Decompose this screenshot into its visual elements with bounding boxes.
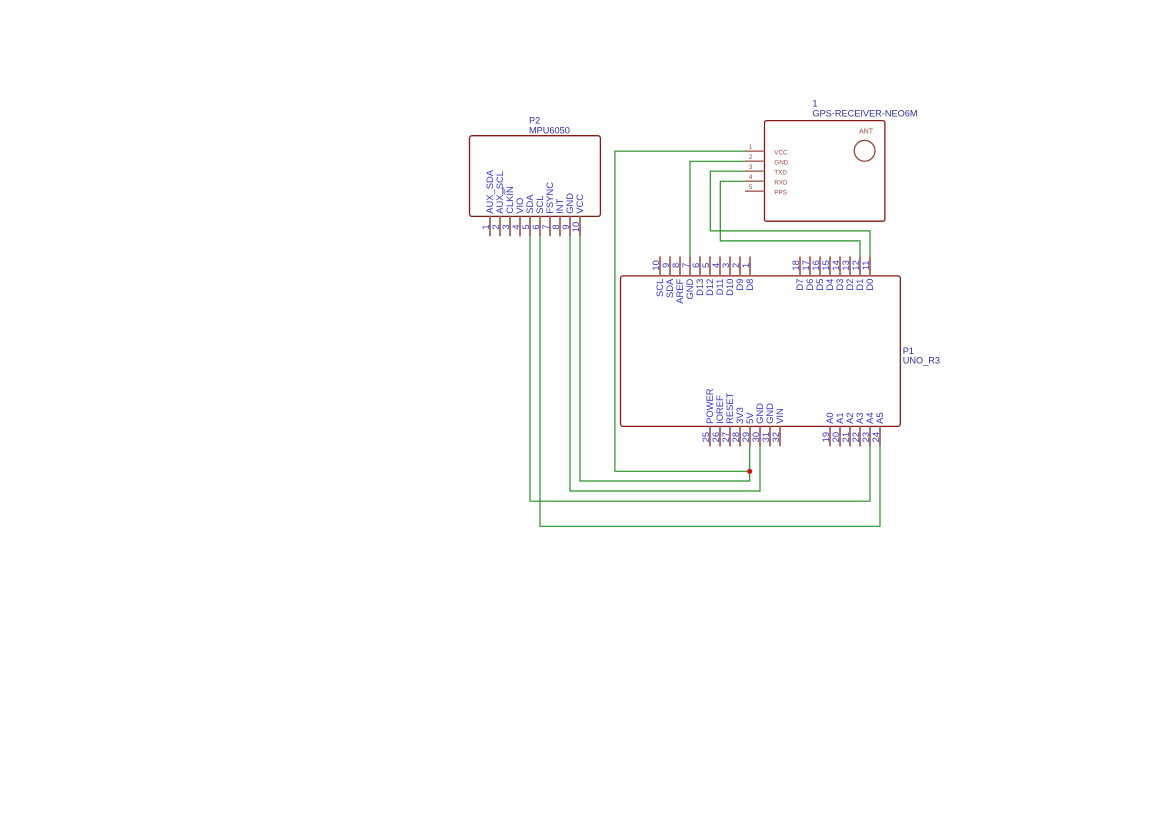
P1 bottom pin 23 (A4) stub, number and name <box>860 412 875 446</box>
P1 top pin 12 (D1) stub, number and name <box>850 256 865 290</box>
P2 pin 2 (AUX_SCL) stub, number and name <box>490 171 505 236</box>
P1 bottom pin 28 (3V3) stub, number and name <box>730 407 745 446</box>
P1 top pin 15 (D4) stub, number and name <box>820 256 835 290</box>
P2 pin 6 (SCL) stub, number and name <box>530 196 545 237</box>
P1 top pin 3 (D10) stub, number and name <box>720 256 735 296</box>
P1 top pin 16 (D5) stub, number and name <box>810 256 825 290</box>
svg-text:D0: D0 <box>864 279 875 291</box>
P1 top pin 6 (D13) stub, number and name <box>690 256 705 296</box>
wire P1 5V pin 29 to P2 VCC pin 10 <box>580 236 750 481</box>
P1 top pin 18 (D7) stub, number and name <box>790 256 805 290</box>
P1 bottom pin 26 (IOREF) stub, number and name <box>710 395 725 446</box>
wire GPS GND to P1 GND pin 7 <box>690 161 745 256</box>
P1 value label UNO_R3 <box>903 356 940 366</box>
svg-text:VCC: VCC <box>774 149 788 156</box>
svg-text:P2: P2 <box>529 116 540 126</box>
P1 bottom pin 31 (GND) stub, number and name <box>760 403 775 447</box>
P1 bottom pin 19 (A0) stub, number and name <box>820 412 835 446</box>
GPS pin 1 (VCC) stub, number and name <box>745 144 788 156</box>
P2 value label MPU6050 <box>529 126 570 136</box>
P1 bottom pin 30 (GND) stub, number and name <box>750 403 765 447</box>
P1 bottom pin 22 (A3) stub, number and name <box>850 412 865 446</box>
wire GPS VCC to 5V net junction <box>615 151 750 471</box>
svg-text:P1: P1 <box>903 346 914 356</box>
svg-text:11: 11 <box>860 261 871 271</box>
P1 top pin 4 (D11) stub, number and name <box>710 256 725 295</box>
svg-text:UNO_R3: UNO_R3 <box>903 356 940 366</box>
svg-text:GND: GND <box>774 159 788 166</box>
svg-text:D8: D8 <box>744 279 755 291</box>
svg-text:ANT: ANT <box>859 129 874 136</box>
P1 top pin 2 (D9) stub, number and name <box>730 256 745 290</box>
P1 top pin 13 (D2) stub, number and name <box>840 256 855 290</box>
GPS ANT label <box>859 129 874 136</box>
wire P2 GND pin 9 to P1 GND pin 30 <box>570 236 760 491</box>
junction dot 5V net <box>747 469 752 474</box>
P1 bottom pin 29 (5V) stub, number and name <box>740 412 755 447</box>
svg-text:GPS-RECEIVER-NEO6M: GPS-RECEIVER-NEO6M <box>812 108 917 118</box>
svg-text:MPU6050: MPU6050 <box>529 126 570 136</box>
wire P2 SCL pin 6 to P1 A5 pin 24 <box>540 236 880 526</box>
GPS value label GPS-RECEIVER-NEO6M <box>812 108 917 118</box>
svg-text:32: 32 <box>770 432 781 442</box>
svg-text:24: 24 <box>870 432 881 442</box>
P1 top pin 11 (D0) stub, number and name <box>860 256 875 290</box>
P2 pin 10 (VCC) stub, number and name <box>570 194 585 237</box>
P1 top pin 17 (D6) stub, number and name <box>800 256 815 290</box>
svg-text:10: 10 <box>570 222 581 232</box>
svg-text:1: 1 <box>749 144 753 151</box>
P2 CLKIN active-low overline <box>502 187 504 194</box>
P2 pin 1 (AUX_SDA) stub, number and name <box>480 169 495 236</box>
GPS pin 3 (TXD) stub, number and name <box>745 164 787 176</box>
svg-text:A5: A5 <box>874 412 885 423</box>
P2 pin 4 (VIO) stub, number and name <box>510 198 525 237</box>
P2 reference designator label <box>529 116 540 126</box>
GPS pin 5 (PPS) stub, number and name <box>745 184 787 196</box>
P2 pin 5 (SDA) stub, number and name <box>520 194 535 237</box>
GPS pin 4 (RXD) stub, number and name <box>745 174 788 186</box>
GPS reference designator 1 <box>812 99 817 109</box>
svg-text:3: 3 <box>749 164 753 171</box>
P1 bottom pin 20 (A1) stub, number and name <box>830 412 845 446</box>
module U1 GPS-RECEIVER-NEO6M body <box>765 121 885 222</box>
P2 pin 3 (CLKIN) stub, number and name <box>500 186 515 236</box>
P1 top pin 7 (GND) stub, number and name <box>680 256 695 299</box>
wire GPS RXD to P1 D1 pin 12 <box>720 181 860 256</box>
P1 reference designator label <box>903 346 914 356</box>
wire P2 SDA pin 5 to P1 A4 pin 23 <box>530 236 870 501</box>
svg-text:1: 1 <box>812 99 817 109</box>
GPS antenna circle <box>854 140 875 161</box>
P1 top pin 8 (AREF) stub, number and name <box>670 256 685 303</box>
IC P2 MPU6050 body <box>470 136 601 217</box>
P1 bottom pin 32 (VIN) stub, number and name <box>770 408 785 446</box>
svg-text:TXD: TXD <box>774 169 787 176</box>
svg-text:2: 2 <box>749 154 753 161</box>
svg-text:5: 5 <box>749 184 753 191</box>
P1 top pin 10 (SCL) stub, number and name <box>650 256 665 297</box>
P2 pin 8 (INT) stub, number and name <box>550 198 565 236</box>
P1 top pin 14 (D3) stub, number and name <box>830 256 845 290</box>
board P1 UNO_R3 body <box>621 276 901 427</box>
svg-text:PPS: PPS <box>774 189 787 196</box>
GPS pin 2 (GND) stub, number and name <box>745 154 789 166</box>
P1 bottom pin 25 (POWER) stub, number and name <box>700 388 715 446</box>
svg-text:1: 1 <box>740 263 751 268</box>
P1 bottom pin 21 (A2) stub, number and name <box>840 412 855 446</box>
svg-text:4: 4 <box>749 174 753 181</box>
svg-text:RXD: RXD <box>774 179 788 186</box>
svg-text:VCC: VCC <box>574 194 585 214</box>
P1 top pin 9 (SDA) stub, number and name <box>660 256 675 298</box>
P1 bottom pin 24 (A5) stub, number and name <box>870 412 885 446</box>
P2 pin 9 (GND) stub, number and name <box>560 193 575 237</box>
svg-text:VIN: VIN <box>774 408 785 424</box>
wire GPS TXD to P1 D0 pin 11 <box>710 171 870 256</box>
P2 pin 7 (FSYNC) stub, number and name <box>540 182 555 237</box>
P1 top pin 1 (D8) stub, number and name <box>740 256 755 290</box>
P1 top pin 5 (D12) stub, number and name <box>700 256 715 296</box>
P1 bottom pin 27 (RESET) stub, number and name <box>720 392 735 446</box>
